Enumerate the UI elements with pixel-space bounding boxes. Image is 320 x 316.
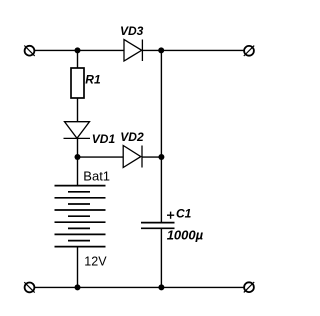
- diode VD2 (pointing right): [123, 146, 142, 168]
- junction node C (right bus / VD2): [158, 154, 164, 160]
- terminal X4 (bottom-right): [244, 282, 254, 292]
- wire VD2 to right bus: [142, 156, 161, 158]
- resistor R1: [71, 68, 84, 98]
- svg-text:VD3: VD3: [120, 24, 144, 38]
- junction node D (top of right bus): [158, 47, 164, 53]
- svg-text:VD1: VD1: [92, 132, 116, 146]
- wire X1 to VD3: [35, 49, 124, 51]
- svg-text:12V: 12V: [84, 255, 107, 269]
- battery Bat1: [55, 186, 106, 247]
- bottom wire: [35, 286, 244, 288]
- terminal X2 (top-right): [244, 46, 254, 56]
- svg-text:C1: C1: [176, 207, 192, 221]
- wire node B to VD2: [78, 156, 124, 158]
- diode VD3 (pointing right): [124, 40, 142, 62]
- svg-text:R1: R1: [85, 73, 101, 87]
- svg-text:1000µ: 1000µ: [167, 228, 204, 243]
- junction node B: [75, 154, 81, 160]
- junction node A (top of R1 branch): [75, 47, 81, 53]
- plus sign of C1: [167, 212, 174, 219]
- wire R1 to VD1: [77, 98, 79, 122]
- wire node A down to R1: [77, 50, 79, 68]
- wire right bus upper (node D to capacitor C1): [160, 50, 162, 222]
- wire node B down to battery: [77, 157, 79, 186]
- diode VD1 (pointing down): [64, 122, 91, 139]
- terminal X1 (top-left): [24, 46, 34, 56]
- wire VD3 to terminal X2: [142, 49, 244, 51]
- wire right bus lower (C1 to bottom wire): [160, 228, 162, 287]
- junction node E (battery / bottom wire): [75, 284, 81, 290]
- capacitor C1: [141, 223, 175, 229]
- svg-text:VD2: VD2: [120, 130, 144, 144]
- svg-text:Bat1: Bat1: [83, 168, 110, 183]
- wire battery to bottom wire: [77, 247, 79, 288]
- wire VD1 to node B: [77, 138, 79, 157]
- junction node F (right bus / bottom wire): [158, 284, 164, 290]
- terminal X3 (bottom-left): [24, 282, 34, 292]
